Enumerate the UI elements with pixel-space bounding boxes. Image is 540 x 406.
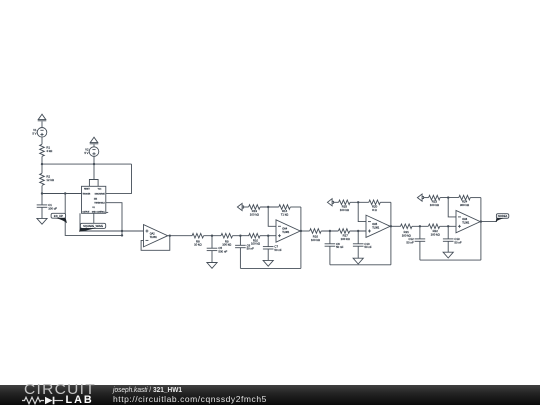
svg-text:100 kΩ: 100 kΩ xyxy=(431,232,440,236)
svg-text:10 kΩ: 10 kΩ xyxy=(194,243,202,247)
capacitor C10 wire top xyxy=(357,231,359,244)
wire stage3 feedback vertical xyxy=(390,202,392,264)
svg-text:DISCHARGE: DISCHARGE xyxy=(95,192,106,195)
svg-text:50 nF: 50 nF xyxy=(247,247,255,251)
svg-text:CONTROL: CONTROL xyxy=(97,212,105,214)
wire OA6 output xyxy=(480,220,497,222)
wire R13 to R14 xyxy=(260,206,279,208)
net flag (stage 4 input) xyxy=(417,194,428,201)
wire C10 to ground xyxy=(357,246,359,258)
wire C6 to bottom bus xyxy=(239,248,241,269)
ground (below C13) xyxy=(443,252,453,258)
power flag VCC (above V2) xyxy=(90,137,99,147)
wire rail to R2 xyxy=(41,164,43,173)
wire R9 to R10 xyxy=(233,235,250,237)
wire to OA6 inverting input xyxy=(448,198,456,217)
wire stage2 bottom bus xyxy=(240,267,301,269)
svg-text:RESET: RESET xyxy=(84,188,90,190)
op-amp OA6 xyxy=(456,210,480,232)
ground (below C5) xyxy=(207,263,217,269)
node flag Init_UP xyxy=(51,213,67,223)
wire C1 to ground xyxy=(41,207,43,218)
wire control stub xyxy=(106,211,108,213)
wire to OA5 inverting input xyxy=(358,202,366,221)
wire R17 to OA5 noninv input xyxy=(350,230,366,232)
node flag NODE1 xyxy=(496,214,509,222)
capacitor C12 xyxy=(406,237,425,244)
resistor R1 xyxy=(40,144,53,156)
wire C7 to ground xyxy=(267,249,269,260)
wire V1 to R1 xyxy=(41,137,43,144)
wire C12 to bottom bus xyxy=(419,241,421,260)
capacitor C5 xyxy=(207,246,228,253)
svg-text:300 kΩ: 300 kΩ xyxy=(460,203,469,207)
wire 555 supply bracket xyxy=(89,180,98,187)
wire R18 to R20 xyxy=(350,201,369,203)
capacitor C6 wire top xyxy=(239,236,241,246)
svg-text:50 nF: 50 nF xyxy=(364,245,372,249)
wire OA2 output xyxy=(168,235,193,237)
wire stage4 bottom bus xyxy=(420,259,481,261)
resistor R18 xyxy=(339,200,351,212)
op-amp OA5 xyxy=(366,215,390,237)
svg-text:100 kΩ: 100 kΩ xyxy=(222,243,231,247)
resistor R17 xyxy=(338,229,349,241)
svg-text:U1: U1 xyxy=(92,207,94,209)
wire R1 to rail xyxy=(41,156,43,164)
resistor R2 xyxy=(40,173,54,185)
resistor R16 xyxy=(310,229,322,242)
svg-text:100 kΩ: 100 kΩ xyxy=(311,238,320,242)
capacitor C7 wire top xyxy=(267,236,269,247)
svg-text:100 uF: 100 uF xyxy=(48,207,57,211)
svg-text:TL081: TL081 xyxy=(150,236,158,239)
wire 555 gnd pin xyxy=(93,213,95,223)
wire threshold xyxy=(106,203,122,236)
svg-text:SQUARE_WAVE: SQUARE_WAVE xyxy=(83,224,103,228)
svg-text:50 nF: 50 nF xyxy=(454,240,462,244)
svg-text:Init_UP: Init_UP xyxy=(54,214,63,218)
wire OA2 feedback xyxy=(141,236,170,251)
wire R21 to R22 xyxy=(412,225,428,227)
svg-text:100 kΩ: 100 kΩ xyxy=(251,242,260,246)
resistor R22 xyxy=(428,224,439,236)
power flag VCC (above V1) xyxy=(38,114,47,127)
wire V2 to rail and 555 supply xyxy=(93,156,95,179)
wire node to C1 xyxy=(41,194,43,205)
svg-text:50 nF: 50 nF xyxy=(336,245,344,249)
net flag (stage 2 input) xyxy=(237,203,248,210)
ground (below C10) xyxy=(353,258,363,264)
resistor R20 xyxy=(369,200,381,212)
voltage source V1 xyxy=(32,128,46,138)
svg-text:OUTPUT: OUTPUT xyxy=(83,212,90,214)
svg-text:8 Ω: 8 Ω xyxy=(372,208,377,212)
wire rail node A xyxy=(41,163,132,165)
ground (below C1) xyxy=(37,218,47,224)
svg-text:100 kΩ: 100 kΩ xyxy=(250,213,259,217)
resistor R14 xyxy=(279,205,291,217)
wire R10 to OA4 noninv input xyxy=(260,235,276,237)
wire R2 to trigger node xyxy=(41,186,43,194)
node flag SQUARE_WAVE xyxy=(79,223,106,231)
resistor R23 xyxy=(429,195,441,207)
svg-text:THRESHOLD: THRESHOLD xyxy=(94,203,105,205)
wire R22 to OA6 noninv input xyxy=(440,225,456,227)
wire OA4 output xyxy=(300,230,310,232)
net flag (stage 3 input) xyxy=(327,199,338,206)
resistor R21 xyxy=(401,224,413,237)
svg-text:TL081: TL081 xyxy=(462,222,470,225)
svg-text:50 nF: 50 nF xyxy=(274,248,282,252)
svg-text:TL081: TL081 xyxy=(282,231,290,234)
capacitor C13 xyxy=(443,237,462,244)
wire C8 to bottom bus xyxy=(329,246,331,265)
IC U1 555 timer box xyxy=(82,186,106,213)
svg-text:12 kΩ: 12 kΩ xyxy=(46,178,54,182)
wire stage3 bottom bus xyxy=(330,264,391,266)
wire C13 to ground xyxy=(447,241,449,252)
capacitor C8 wire top xyxy=(329,231,331,244)
wire OA5 output xyxy=(390,225,401,227)
op-amp OA2 (buffer) xyxy=(144,225,168,247)
capacitor C6 xyxy=(235,243,254,250)
resistor R9 xyxy=(221,233,233,246)
resistor R13 xyxy=(249,205,261,217)
wire to OA4 inverting input xyxy=(268,207,276,226)
svg-text:50 nF: 50 nF xyxy=(406,240,414,244)
wire C5 top xyxy=(211,236,213,249)
wire R24 to feedback corner xyxy=(470,197,481,199)
svg-text:100 kΩ: 100 kΩ xyxy=(341,237,350,241)
wire R20 to feedback corner xyxy=(380,201,391,203)
wire stage4 feedback vertical xyxy=(480,198,482,261)
capacitor C7 xyxy=(263,245,282,252)
svg-text:4 kΩ: 4 kΩ xyxy=(46,149,52,153)
wire R23 to R24 xyxy=(440,196,459,198)
svg-text:71 kΩ: 71 kΩ xyxy=(281,213,289,217)
svg-text:TRIGGER: TRIGGER xyxy=(83,193,91,195)
wire C5 to ground xyxy=(211,251,213,263)
wire trigger-threshold link xyxy=(65,194,123,237)
capacitor C10 xyxy=(353,242,372,249)
resistor R24 xyxy=(459,195,471,207)
svg-text:5 V: 5 V xyxy=(32,132,36,136)
capacitor C8 xyxy=(325,242,344,249)
resistor R8 xyxy=(192,233,204,246)
voltage source V2 xyxy=(84,147,98,157)
wire R16 to R17 xyxy=(321,230,338,232)
resistor R10 xyxy=(249,233,260,245)
svg-text:TL081: TL081 xyxy=(372,226,380,229)
svg-text:100 kΩ: 100 kΩ xyxy=(340,208,349,212)
wire R14 to feedback corner xyxy=(290,206,301,208)
op-amp OA4 xyxy=(276,220,300,242)
wire stage2 feedback vertical xyxy=(300,207,302,268)
svg-text:5 V: 5 V xyxy=(84,151,88,155)
capacitor C1 xyxy=(37,203,58,210)
wire 555 output xyxy=(80,213,144,232)
capacitor C13 wire top xyxy=(447,226,449,239)
svg-text:500 nF: 500 nF xyxy=(218,250,227,254)
ground (below C7) xyxy=(263,260,273,266)
svg-text:NODE1: NODE1 xyxy=(498,214,508,218)
wire discharge to rail xyxy=(106,164,132,193)
wire trigger row xyxy=(41,192,82,194)
svg-text:100 kΩ: 100 kΩ xyxy=(430,203,439,207)
capacitor C12 wire top xyxy=(419,226,421,239)
wire R8 to R9 xyxy=(204,235,221,237)
